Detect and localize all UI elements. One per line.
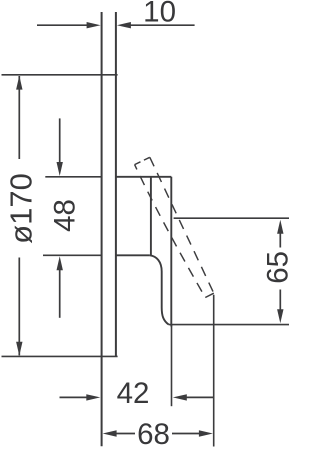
- wire: dim48 top tail: [59, 118, 61, 163]
- node: dim65 bottom arrow (down): [277, 309, 283, 323]
- node: dim65 top arrow (up): [277, 220, 283, 234]
- wire: dim48 bottom tail: [59, 270, 61, 318]
- wire: dim42 right tail: [186, 396, 213, 398]
- node: dim42 left arrow (right-pointing): [86, 394, 100, 400]
- wire: dim 10 left tail: [37, 24, 88, 26]
- wire: dim68 right extension line: [213, 295, 215, 447]
- svg-text:68: 68: [137, 418, 170, 450]
- wire: dim42 left tail: [60, 396, 88, 398]
- node: dim42 right arrow (left-pointing): [173, 394, 187, 400]
- wire: dim65 top extension: [174, 217, 289, 219]
- wire: dim48 bottom extension: [43, 254, 103, 256]
- wire: dim65 bottom extension: [169, 324, 289, 326]
- wire: body step edge: [116, 254, 150, 256]
- wire: dim42 right extension (below body): [171, 325, 173, 407]
- node: dia170 top arrow: [16, 76, 22, 90]
- node: dim48 top arrow (down): [57, 162, 63, 176]
- wire: body top edge: [116, 176, 171, 178]
- wire: dim68 right segment: [172, 433, 199, 435]
- svg-text:10: 10: [143, 0, 176, 28]
- wire: phantom handle left edge (dashed): [135, 165, 206, 298]
- wire: wall plate right line: [115, 12, 117, 356]
- svg-text:ø170: ø170: [4, 173, 39, 244]
- node: dim 10 right arrow: [117, 22, 131, 28]
- wire: dim68 left segment: [116, 433, 135, 435]
- wire: dia170 top extension: [2, 74, 118, 76]
- node: dim68 right arrow (right-pointing): [199, 430, 213, 436]
- wire: dim65 upper segment: [279, 231, 281, 248]
- wire: handle closed S-curve: [150, 255, 169, 324]
- svg-text:48: 48: [49, 199, 82, 232]
- wire: phantom handle right edge (dashed): [150, 157, 214, 293]
- svg-text:42: 42: [117, 377, 150, 410]
- wire: phantom handle bottom cap (dashed): [205, 293, 214, 297]
- wire: dia170 bottom extension: [2, 355, 118, 357]
- svg-text:65: 65: [262, 251, 292, 284]
- wire: dia170 dim line lower: [18, 258, 20, 356]
- wire: phantom handle top cap (dashed): [135, 157, 150, 164]
- wire: wall plate left line: [101, 12, 103, 446]
- wire: dia170 dim line upper: [18, 76, 20, 159]
- node: dim48 bottom arrow (up): [57, 256, 63, 270]
- node: dim68 left arrow (left-pointing): [103, 430, 117, 436]
- wire: body inner vertical: [150, 177, 152, 256]
- wire: body right edge: [170, 177, 172, 327]
- node: dim 10 left arrow: [87, 22, 101, 28]
- node: dia170 bottom arrow: [16, 342, 22, 356]
- wire: dim65 lower segment: [279, 290, 281, 313]
- wire: dim 10 right tail: [129, 24, 195, 26]
- wire: dim48 top extension: [45, 176, 102, 178]
